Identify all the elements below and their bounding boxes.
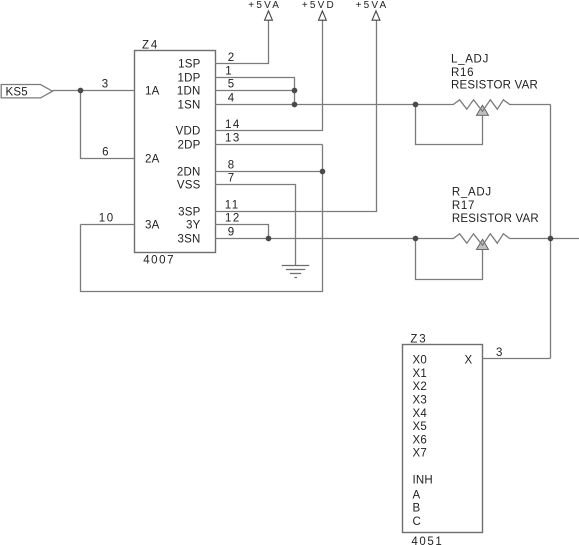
junction node 1DP/1DN: [292, 88, 298, 94]
svg-text:+5VA: +5VA: [356, 0, 389, 11]
junction node R16 left: [413, 102, 419, 108]
svg-text:X5: X5: [413, 421, 427, 433]
svg-text:X2: X2: [413, 381, 427, 393]
svg-text:+5VD: +5VD: [302, 0, 336, 11]
svg-text:Z4: Z4: [142, 39, 159, 51]
wire pin 2 (1SP) to +5VA: [215, 20, 269, 63]
svg-text:3A: 3A: [145, 220, 160, 232]
wire R16 right down to R17 and Z3 X: [550, 105, 552, 359]
svg-text:1SP: 1SP: [178, 59, 200, 71]
svg-text:7: 7: [228, 173, 236, 185]
power symbol +5VD: [319, 11, 327, 20]
wire KS5 to pin 3 (1A): [53, 90, 135, 92]
svg-text:3: 3: [102, 79, 110, 91]
svg-text:1: 1: [225, 66, 233, 78]
svg-text:4: 4: [228, 93, 236, 105]
svg-text:3: 3: [496, 347, 504, 359]
R16 wiper arrow: [477, 105, 489, 115]
svg-text:11: 11: [225, 200, 240, 212]
chip Z4 body: [135, 51, 216, 253]
resistor R17 zigzag: [416, 234, 579, 246]
svg-text:1A: 1A: [145, 86, 160, 98]
svg-text:14: 14: [225, 119, 241, 131]
svg-text:12: 12: [225, 213, 241, 225]
svg-text:5: 5: [228, 79, 236, 91]
svg-text:X0: X0: [413, 355, 427, 367]
label L_ADJ R16: [451, 53, 538, 91]
svg-text:R17: R17: [452, 200, 475, 212]
power symbol +5VA (right): [372, 11, 380, 20]
wire pin 12 (3Y): [215, 225, 269, 239]
svg-text:C: C: [413, 516, 422, 528]
svg-text:RESISTOR VAR: RESISTOR VAR: [451, 80, 538, 92]
svg-text:Z3: Z3: [410, 333, 427, 345]
svg-text:2DN: 2DN: [177, 167, 201, 179]
svg-text:3SP: 3SP: [178, 207, 200, 219]
junction node R17 left: [413, 236, 419, 242]
svg-text:KS5: KS5: [6, 86, 28, 98]
svg-text:RESISTOR VAR: RESISTOR VAR: [452, 213, 539, 225]
svg-text:X1: X1: [413, 368, 427, 380]
svg-text:VSS: VSS: [177, 180, 201, 192]
svg-text:VDD: VDD: [176, 126, 201, 138]
svg-text:8: 8: [228, 160, 236, 172]
svg-text:10: 10: [99, 213, 115, 225]
wire pin 9 (3SN) to R17: [215, 238, 416, 240]
svg-text:X7: X7: [413, 448, 427, 460]
Z4 right pin names: [176, 59, 201, 246]
junction node KS5/1A/2A: [78, 88, 84, 94]
svg-text:X3: X3: [413, 395, 427, 407]
svg-text:6: 6: [102, 147, 110, 159]
R17 wiper stem and loop: [416, 239, 483, 280]
junction node R16/R17/X: [548, 236, 554, 242]
power labels: [248, 0, 388, 11]
input tag KS5: [1, 85, 52, 98]
wire pin 8 (2DN): [215, 171, 323, 173]
svg-text:X: X: [465, 355, 473, 367]
svg-text:X6: X6: [413, 434, 427, 446]
wire pin 14 (VDD) to +5VD: [215, 20, 323, 130]
svg-text:+5VA: +5VA: [248, 0, 281, 11]
svg-text:2A: 2A: [145, 154, 160, 166]
wire node KS5 down to 2A: [81, 91, 135, 159]
svg-text:1DP: 1DP: [178, 73, 201, 85]
Z3 pin names: [413, 355, 473, 528]
wire pin 10 (3A): [81, 224, 135, 226]
svg-text:INH: INH: [413, 475, 433, 487]
Z4 left pin names: [145, 86, 160, 232]
svg-text:X4: X4: [413, 408, 428, 420]
svg-text:A: A: [413, 489, 421, 501]
svg-text:L_ADJ: L_ADJ: [451, 53, 489, 65]
power symbol +5VA (left): [265, 11, 273, 20]
svg-text:13: 13: [225, 133, 241, 145]
wire pin 13 (2DP): [215, 144, 323, 146]
svg-text:1DN: 1DN: [177, 86, 201, 98]
R17 wiper arrow: [477, 239, 489, 249]
label R_ADJ R17: [452, 187, 539, 226]
wire pin 11 (3SP) to +5VA: [215, 20, 377, 211]
wire 3A down to bottom loop: [81, 145, 323, 292]
ground: [282, 266, 310, 278]
svg-text:R_ADJ: R_ADJ: [452, 187, 492, 199]
svg-text:4007: 4007: [143, 255, 175, 267]
svg-text:3SN: 3SN: [178, 234, 201, 246]
resistor R16 zigzag: [416, 100, 551, 112]
svg-text:1SN: 1SN: [178, 100, 201, 112]
wire Z3 pin 3 (X): [483, 358, 551, 360]
svg-text:R16: R16: [451, 67, 474, 79]
Z4 pin numbers: [99, 52, 504, 359]
junction node 2DP/2DN: [320, 169, 326, 175]
svg-text:B: B: [413, 503, 421, 515]
svg-text:9: 9: [228, 227, 236, 239]
svg-text:2DP: 2DP: [178, 140, 201, 152]
svg-text:3Y: 3Y: [186, 220, 201, 232]
junction node 1DN/1SN: [292, 102, 298, 108]
svg-text:4051: 4051: [411, 536, 443, 545]
chip Z3 body: [403, 345, 483, 533]
wire pin 4 (1SN) to R16: [215, 104, 416, 106]
svg-text:2: 2: [228, 52, 236, 64]
wire pin 1 (1DP): [215, 78, 295, 105]
R16 wiper stem and loop: [416, 105, 483, 145]
wire pin 7 (VSS) to ground: [215, 185, 296, 266]
wire pin 5 (1DN): [215, 90, 295, 92]
junction node 3Y/3SN: [266, 236, 272, 242]
